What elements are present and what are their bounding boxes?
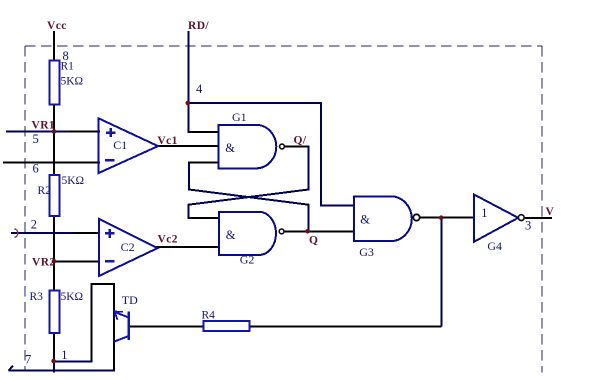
svg-text:7: 7 [25, 353, 31, 367]
svg-text:4: 4 [196, 82, 203, 96]
svg-text:1: 1 [61, 348, 67, 362]
svg-text:Vc2: Vc2 [158, 234, 178, 246]
svg-text:2: 2 [31, 217, 37, 231]
svg-text:G1: G1 [232, 110, 247, 124]
svg-text:G2: G2 [240, 253, 255, 267]
svg-text:5: 5 [33, 132, 39, 146]
svg-text:G4: G4 [487, 239, 502, 253]
svg-text:6: 6 [33, 162, 39, 176]
svg-text:Vc1: Vc1 [157, 135, 177, 147]
svg-text:1: 1 [481, 206, 487, 220]
svg-text:R1: R1 [61, 61, 75, 73]
svg-text:5KΩ: 5KΩ [62, 175, 85, 187]
svg-text:TD: TD [122, 293, 138, 307]
svg-text:R4: R4 [202, 309, 216, 321]
svg-text:VR1: VR1 [32, 119, 56, 131]
svg-text:&: & [226, 228, 236, 242]
svg-text:C2: C2 [121, 240, 135, 254]
svg-text:&: & [225, 141, 235, 155]
svg-text:R3: R3 [30, 291, 44, 303]
svg-text:G3: G3 [359, 245, 374, 259]
svg-text:RD/: RD/ [188, 20, 209, 32]
svg-text:Q: Q [309, 235, 318, 247]
svg-text:3: 3 [525, 219, 531, 233]
svg-text:&: & [360, 212, 370, 226]
svg-text:5KΩ: 5KΩ [61, 76, 84, 88]
svg-text:C1: C1 [113, 138, 127, 152]
svg-text:5KΩ: 5KΩ [61, 291, 84, 303]
svg-text:R2: R2 [38, 185, 52, 197]
svg-text:V: V [546, 206, 555, 218]
svg-text:Q/: Q/ [294, 134, 307, 146]
svg-text:Vcc: Vcc [47, 20, 67, 32]
